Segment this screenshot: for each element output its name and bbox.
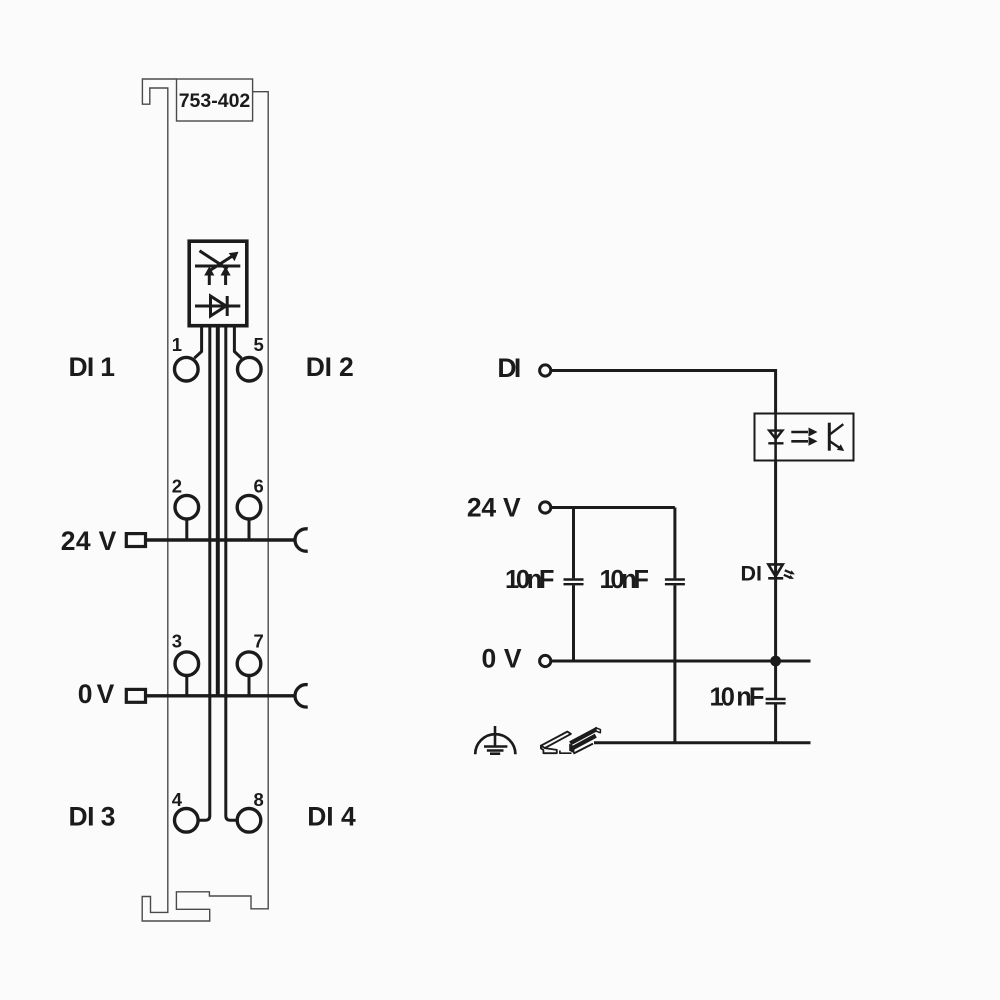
svg-text:10 nF: 10 nF bbox=[710, 684, 765, 712]
svg-text:8: 8 bbox=[254, 789, 264, 810]
svg-text:1: 1 bbox=[172, 334, 182, 355]
svg-text:6: 6 bbox=[254, 476, 264, 497]
svg-text:24 V: 24 V bbox=[61, 526, 117, 556]
svg-text:753-402: 753-402 bbox=[179, 90, 251, 112]
svg-text:4: 4 bbox=[172, 789, 183, 810]
svg-text:2: 2 bbox=[172, 476, 182, 497]
svg-text:0 V: 0 V bbox=[482, 644, 522, 674]
svg-text:0 V: 0 V bbox=[78, 679, 115, 709]
svg-text:DI: DI bbox=[497, 353, 521, 383]
svg-text:DI 3: DI 3 bbox=[69, 801, 116, 831]
svg-text:DI 1: DI 1 bbox=[69, 352, 116, 382]
svg-text:DI 4: DI 4 bbox=[307, 801, 356, 831]
svg-text:24 V: 24 V bbox=[467, 493, 521, 523]
svg-text:10nF: 10nF bbox=[600, 566, 650, 594]
svg-text:3: 3 bbox=[172, 631, 182, 652]
svg-text:5: 5 bbox=[254, 334, 264, 355]
svg-text:10nF: 10nF bbox=[505, 566, 555, 594]
svg-text:DI 2: DI 2 bbox=[306, 352, 354, 382]
svg-text:7: 7 bbox=[254, 631, 264, 652]
svg-text:DI: DI bbox=[741, 561, 763, 585]
